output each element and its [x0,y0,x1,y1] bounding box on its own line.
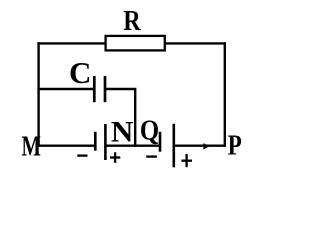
arrow current direction [203,143,209,149]
wire top-left segment [37,42,106,44]
label + of battery Q [181,154,192,167]
svg-text:P: P [228,131,242,162]
svg-text:R: R [123,6,141,37]
battery Q [160,124,174,168]
svg-text:N: N [111,117,134,149]
wire bottom middle segment [105,144,160,146]
svg-text:Q: Q [140,116,159,147]
wire right vertical [224,42,226,147]
wire left vertical [37,42,39,147]
capacitor C [94,76,105,102]
wire top-right segment [165,42,227,44]
wire bottom left segment [37,144,95,146]
wire capacitor branch left [37,88,94,90]
wire bottom right segment [174,144,226,146]
svg-text:C: C [69,55,91,90]
label - of battery N [77,154,87,156]
wire capacitor branch right and junction drop [106,89,135,147]
svg-text:M: M [21,132,41,163]
resistor R [106,36,165,51]
label + of battery N [110,152,120,163]
battery N [95,124,105,160]
label - of battery Q [146,155,157,157]
